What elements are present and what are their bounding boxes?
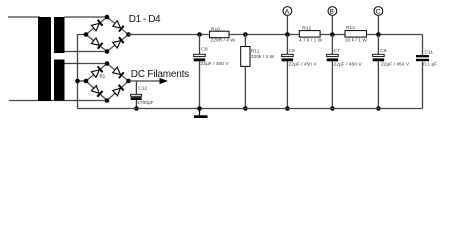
wire C12 branch from filament line: [135, 81, 137, 95]
wire C6 bottom: [377, 61, 379, 108]
diode B1b (top-right): [113, 67, 121, 74]
diode B1d (bottom-right): [113, 88, 121, 96]
svg-text:220k / 1 W: 220k / 1 W: [251, 54, 275, 60]
bridge B1 diamond edges: [86, 64, 129, 101]
junction dot node B: [330, 32, 335, 37]
wire DC filaments output: [129, 80, 161, 82]
svg-text:10 k / 1 W: 10 k / 1 W: [345, 38, 367, 44]
resistor R11 body: [241, 47, 250, 67]
node B circle: [328, 7, 337, 16]
wire HT secondary bottom tap to bridge bottom vertex: [65, 51, 108, 53]
wire C11 bottom: [422, 61, 424, 108]
junction dot C8 bottom / ground: [197, 106, 202, 111]
resistor R13 body: [345, 31, 367, 37]
wire C6 top: [377, 35, 379, 55]
svg-text:B1: B1: [100, 73, 106, 78]
wire DC-minus from B1 left vertex: [78, 80, 87, 82]
junction dot DC-minus join: [75, 79, 80, 84]
svg-text:A: A: [285, 8, 290, 15]
wire C8 bottom: [199, 61, 201, 108]
wire primary top lead: [8, 16, 40, 18]
node dot B1 top vertex: [105, 61, 110, 66]
junction dot node A: [285, 32, 290, 37]
svg-text:C11: C11: [425, 50, 434, 56]
wire HT positive rail: [129, 34, 210, 36]
node dot D1-D4 right vertex: [126, 32, 131, 37]
diode D2 (top-right): [113, 21, 121, 28]
capacitor C11 plates: [416, 55, 429, 57]
capacitor C7 plates: [327, 54, 339, 56]
diode B1c (bottom-left): [91, 86, 99, 94]
svg-text:22µF / 450 V: 22µF / 450 V: [381, 61, 410, 67]
svg-text:C9: C9: [289, 48, 296, 54]
svg-text:DC Filaments: DC Filaments: [131, 69, 189, 80]
wire filament secondary top tap to bridge B1 top vertex: [65, 63, 108, 65]
node dot D1-D4 left vertex: [84, 32, 89, 37]
wire C11 top: [422, 35, 424, 56]
wire R11 top: [244, 35, 246, 47]
bridge D1-D4 diamond edges: [86, 17, 129, 52]
junction dot C9 bottom: [285, 106, 290, 111]
resistor R12 body: [299, 31, 320, 37]
transformer T1 HT secondary winding bar: [54, 17, 65, 53]
wire HT secondary top tap to bridge top vertex: [65, 16, 108, 18]
capacitor C9 plates: [282, 54, 294, 56]
svg-text:0,1 µF: 0,1 µF: [423, 62, 437, 68]
capacitor C8 plates: [194, 54, 206, 56]
svg-text:C12: C12: [138, 85, 147, 91]
svg-text:C8: C8: [201, 47, 208, 53]
node A circle: [283, 7, 292, 16]
svg-text:220R / 4 W: 220R / 4 W: [211, 38, 236, 44]
svg-text:4700µF: 4700µF: [137, 100, 154, 106]
svg-text:R11: R11: [251, 48, 260, 54]
svg-text:D1 - D4: D1 - D4: [129, 14, 161, 25]
svg-text:C7: C7: [334, 48, 341, 54]
capacitor C12 plates: [131, 94, 142, 96]
junction dot R11 top: [243, 32, 248, 37]
wire C9 top: [286, 35, 288, 55]
wire R10 to R11 node: [229, 34, 299, 36]
node dot D1-D4 top vertex: [105, 15, 110, 20]
wire node B stub: [331, 15, 333, 34]
node dot D1-D4 bottom vertex: [105, 49, 110, 54]
wire C7 bottom: [331, 61, 333, 108]
junction dot C6 bottom: [376, 106, 381, 111]
svg-text:22µF / 450 V: 22µF / 450 V: [201, 61, 230, 67]
svg-text:4,7 k / 1 W: 4,7 k / 1 W: [299, 38, 323, 44]
wire C9 bottom: [286, 61, 288, 108]
wire C7 top: [331, 35, 333, 55]
svg-text:22µF / 450 V: 22µF / 450 V: [334, 61, 363, 67]
diode D4 (bottom-right): [113, 41, 121, 48]
junction dot C8 top: [197, 32, 202, 37]
junction dot C7 bottom: [330, 106, 335, 111]
diode D3 (bottom-left): [91, 38, 99, 45]
diode D1 (top-left): [91, 23, 99, 30]
wire node C stub: [377, 15, 379, 34]
wire C12 to ground rail: [135, 100, 137, 109]
svg-text:C: C: [376, 8, 381, 15]
svg-text:B: B: [330, 8, 335, 15]
svg-text:C6: C6: [380, 48, 387, 54]
junction dot C12 ground: [134, 106, 139, 111]
node dot B1 left vertex: [84, 79, 89, 84]
arrow DC filaments: [160, 78, 169, 84]
transformer T1 primary winding bar: [38, 17, 51, 101]
wire R13 to node C: [367, 34, 423, 36]
wire C8 top: [199, 35, 201, 55]
capacitor C6 plates: [373, 54, 385, 56]
wire R11 bottom: [244, 66, 246, 108]
node dot B1 bottom vertex: [105, 98, 110, 103]
ground symbol: [199, 109, 201, 116]
node dot B1 right vertex: [126, 79, 131, 84]
node C circle: [374, 7, 383, 16]
diode B1a (top-left): [91, 70, 99, 77]
wire primary bottom lead + filament winding bottom tap to bridge B1 bottom vertex: [9, 100, 107, 102]
wire node A stub: [286, 15, 288, 34]
wire R12 to node B: [320, 34, 345, 36]
wire ground rail: [78, 108, 423, 110]
resistor R10 body: [210, 31, 230, 38]
transformer T1 filament secondary winding bar: [54, 60, 65, 101]
junction dot R11 bottom: [243, 106, 248, 111]
junction dot node C: [376, 32, 381, 37]
svg-text:22µF / 450 V: 22µF / 450 V: [289, 61, 318, 67]
wire DC-minus from D1-D4 left vertex down to ground rail: [78, 35, 87, 109]
